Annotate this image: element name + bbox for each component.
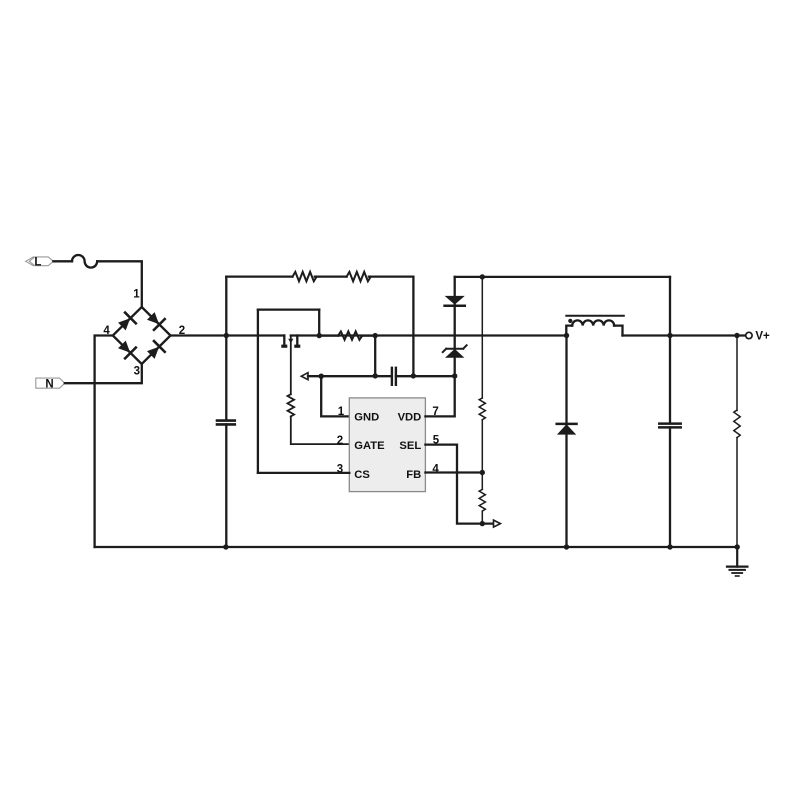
top right aux line — [455, 276, 670, 278]
aux diode D5 vertical — [454, 277, 456, 376]
gate resistor R4 — [288, 394, 350, 444]
wire GND pin drop — [321, 376, 349, 416]
IC pin texts — [354, 411, 421, 481]
svg-text:CS: CS — [354, 469, 370, 481]
wire bridge pin 4 to bottom rail — [95, 336, 113, 548]
wire CS to IC — [258, 472, 349, 474]
divider riser (thin) — [481, 277, 483, 398]
net arrow SEL (right) — [494, 520, 501, 527]
fuse F1 — [72, 255, 97, 268]
wire to rail node — [318, 310, 320, 336]
wire fuse to bridge pin 1 — [97, 261, 142, 307]
svg-text:1: 1 — [338, 406, 345, 418]
terminal V+ — [746, 332, 752, 338]
load resistor R7 (thin) — [734, 336, 740, 548]
diode BR1 D 4-1 — [117, 313, 136, 332]
wire CS riser — [257, 310, 259, 473]
ground — [727, 547, 747, 576]
IC U1 body — [349, 398, 425, 492]
terminal N — [36, 378, 65, 388]
bottom rail — [95, 546, 738, 548]
svg-text:1: 1 — [133, 289, 140, 301]
diode D6 — [557, 424, 577, 435]
resistor R1 — [293, 272, 317, 281]
diode BR1 D 4-3 — [117, 339, 136, 358]
junction dots — [223, 274, 740, 550]
rail after inductor — [623, 334, 746, 336]
resistor R6 (thin) — [479, 489, 485, 511]
diode BR1 D 1-2 — [145, 311, 164, 330]
pass transistor Q1 — [281, 336, 300, 395]
wire rail right of pass transistor — [291, 334, 567, 336]
inner loop top wire — [258, 308, 319, 310]
wire top-left riser — [225, 277, 227, 421]
svg-text:3: 3 — [134, 365, 140, 377]
svg-text:N: N — [45, 378, 53, 390]
svg-text:GATE: GATE — [354, 440, 385, 452]
top-left line with startup resistors — [226, 275, 292, 277]
freewheeling diode D6 leg — [565, 336, 567, 548]
zener ZD1 — [443, 345, 467, 357]
capacitor C1 — [217, 421, 235, 547]
wire VDD pin to riser — [425, 376, 454, 416]
IC pin numbers — [337, 406, 440, 476]
diode BR1 D 3-2 — [145, 341, 164, 360]
wire SEL to net arrow — [425, 445, 493, 524]
resistor R5 (thin) — [479, 398, 485, 420]
bridge rectifier BR1 — [113, 307, 171, 364]
output riser — [669, 277, 671, 423]
wire arrow line to VDD node — [308, 375, 392, 377]
svg-text:V+: V+ — [755, 331, 770, 343]
svg-text:L: L — [34, 257, 41, 269]
svg-text:GND: GND — [354, 411, 379, 423]
svg-text:SEL: SEL — [399, 440, 421, 452]
wire N to bridge pin 3 — [65, 364, 142, 383]
wire L to fuse — [53, 260, 72, 262]
resistor R3 sense — [319, 334, 338, 336]
wire rail to VDD cap node — [374, 336, 376, 376]
wire FB to divider — [425, 471, 482, 473]
svg-text:VDD: VDD — [398, 411, 422, 423]
inductor L1 — [566, 316, 624, 336]
svg-text:FB: FB — [406, 469, 421, 481]
terminal L — [26, 257, 54, 266]
svg-text:2: 2 — [337, 435, 343, 447]
main rail from bridge pin 2 — [171, 334, 285, 336]
capacitor C3 — [659, 424, 680, 547]
diode D5 — [445, 296, 465, 306]
net arrow gate-drive (left) — [301, 373, 308, 380]
resistor R2 — [347, 272, 371, 281]
capacitor C2 — [392, 368, 455, 385]
